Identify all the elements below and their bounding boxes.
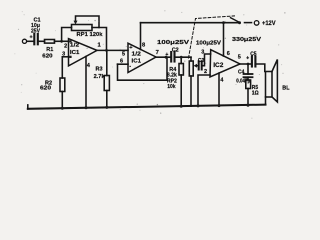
- wire output row: [97, 49, 128, 51]
- wire: [27, 40, 34, 42]
- svg-text:0.047μ: 0.047μ: [236, 79, 250, 85]
- potentiometer RP1: [72, 25, 93, 31]
- capacitor C4: [247, 64, 249, 74]
- wire C2 to RP2: [175, 56, 191, 58]
- node input junction: [60, 40, 63, 43]
- capacitor C3: [198, 61, 200, 69]
- svg-text:5: 5: [238, 55, 241, 61]
- node rail zobel: [247, 104, 250, 107]
- node output IC2: [247, 63, 250, 66]
- wire: [38, 40, 44, 42]
- node R4 top: [180, 56, 183, 59]
- svg-text:2.7k: 2.7k: [94, 74, 106, 80]
- svg-text:IC2: IC2: [213, 62, 223, 69]
- svg-text:+: +: [246, 56, 249, 62]
- resistor R2: [61, 57, 63, 78]
- wire pin6: [118, 63, 129, 65]
- ground rail: [28, 105, 266, 109]
- wire pin4 IC2: [218, 73, 220, 106]
- terminal +12V: [254, 21, 259, 26]
- input terminal: [22, 39, 26, 43]
- node rail R3: [105, 106, 108, 109]
- resistor R3: [106, 50, 108, 75]
- wiper arrow RP2: [194, 64, 198, 68]
- svg-text:R1: R1: [46, 47, 53, 53]
- node rail switch pole: [238, 21, 241, 24]
- switch fixed contact stub: [245, 22, 252, 24]
- speaker BL: [266, 72, 273, 98]
- svg-text:620: 620: [42, 53, 52, 59]
- node rail R4: [180, 105, 183, 108]
- svg-text:C3: C3: [198, 58, 205, 64]
- svg-text:IC1: IC1: [70, 50, 80, 56]
- wire pin6 IC2: [223, 23, 225, 56]
- svg-text:10k: 10k: [167, 84, 176, 90]
- node rail pin4: [85, 106, 88, 109]
- svg-text:2: 2: [64, 43, 67, 49]
- svg-text:2: 2: [204, 69, 207, 75]
- capacitor C2: [170, 52, 172, 62]
- wire: [55, 40, 69, 42]
- power amp IC2: [210, 50, 240, 77]
- svg-text:3: 3: [201, 49, 204, 55]
- node rail pin6 IC2: [222, 21, 225, 24]
- node rail pin4 IC2: [218, 104, 221, 107]
- node rail pin2 IC2: [197, 104, 200, 107]
- svg-text:6: 6: [227, 51, 230, 57]
- svg-text:330μ25V: 330μ25V: [232, 37, 261, 43]
- svg-text:C2: C2: [172, 47, 179, 53]
- mechanical link (dashed): [189, 16, 235, 58]
- svg-text:1/2: 1/2: [70, 43, 79, 49]
- resistor R1: [45, 40, 55, 44]
- svg-text:5: 5: [122, 52, 125, 58]
- wiper arrow RP1: [74, 21, 78, 25]
- capacitor C5: [251, 57, 253, 67]
- ground stub: [27, 105, 29, 109]
- potentiometer RP2: [190, 57, 192, 61]
- svg-text:R3: R3: [96, 67, 103, 73]
- node feedback tap: [165, 56, 168, 59]
- svg-text:-: -: [129, 64, 131, 70]
- svg-text:C5: C5: [250, 52, 257, 58]
- switch S blade: [231, 18, 240, 23]
- svg-text:7: 7: [156, 50, 159, 56]
- svg-text:+12V: +12V: [262, 21, 276, 27]
- svg-text:100μ25V: 100μ25V: [196, 40, 221, 46]
- wire pin8: [140, 23, 142, 50]
- op-amp U1B (1/2 IC1): [128, 43, 156, 72]
- node rail R2: [61, 107, 64, 110]
- wire top rail: [141, 22, 240, 24]
- wire pin2 IC2: [198, 75, 210, 106]
- wire feedback to output: [99, 28, 107, 51]
- svg-text:25V: 25V: [31, 28, 40, 34]
- resistor R4: [180, 57, 182, 63]
- svg-text:100μ25V: 100μ25V: [157, 40, 189, 46]
- wire feedback loop U1B: [118, 57, 168, 80]
- wire pin3 IC2: [202, 54, 211, 66]
- wire RP1 right leg: [76, 16, 100, 28]
- svg-text:RP1 120k: RP1 120k: [77, 32, 104, 38]
- pin3 mark: [69, 56, 71, 58]
- wire pin3: [62, 56, 68, 58]
- pin2 mark: [69, 40, 71, 42]
- wire output IC1b row: [156, 56, 171, 58]
- svg-text:+: +: [165, 52, 168, 58]
- resistor R5: [247, 77, 249, 80]
- wire output IC2: [240, 63, 252, 65]
- wire pin4: [85, 57, 87, 108]
- svg-text:3: 3: [62, 52, 65, 58]
- svg-text:C4: C4: [238, 70, 245, 76]
- svg-text:1/2: 1/2: [132, 52, 141, 58]
- wire wiper to C3: [197, 65, 198, 67]
- svg-text:620: 620: [40, 86, 51, 92]
- svg-text:IC1: IC1: [132, 58, 142, 64]
- svg-text:6: 6: [120, 59, 123, 65]
- wire RP1 left leg: [62, 28, 72, 42]
- op-amp U1A (1/2 IC1): [69, 39, 98, 66]
- node output IC1a: [105, 49, 108, 52]
- svg-text:+: +: [30, 35, 33, 41]
- wire to speaker: [256, 64, 265, 72]
- svg-text:BL: BL: [282, 86, 290, 92]
- capacitor C1: [33, 34, 35, 44]
- svg-text:1Ω: 1Ω: [252, 91, 259, 97]
